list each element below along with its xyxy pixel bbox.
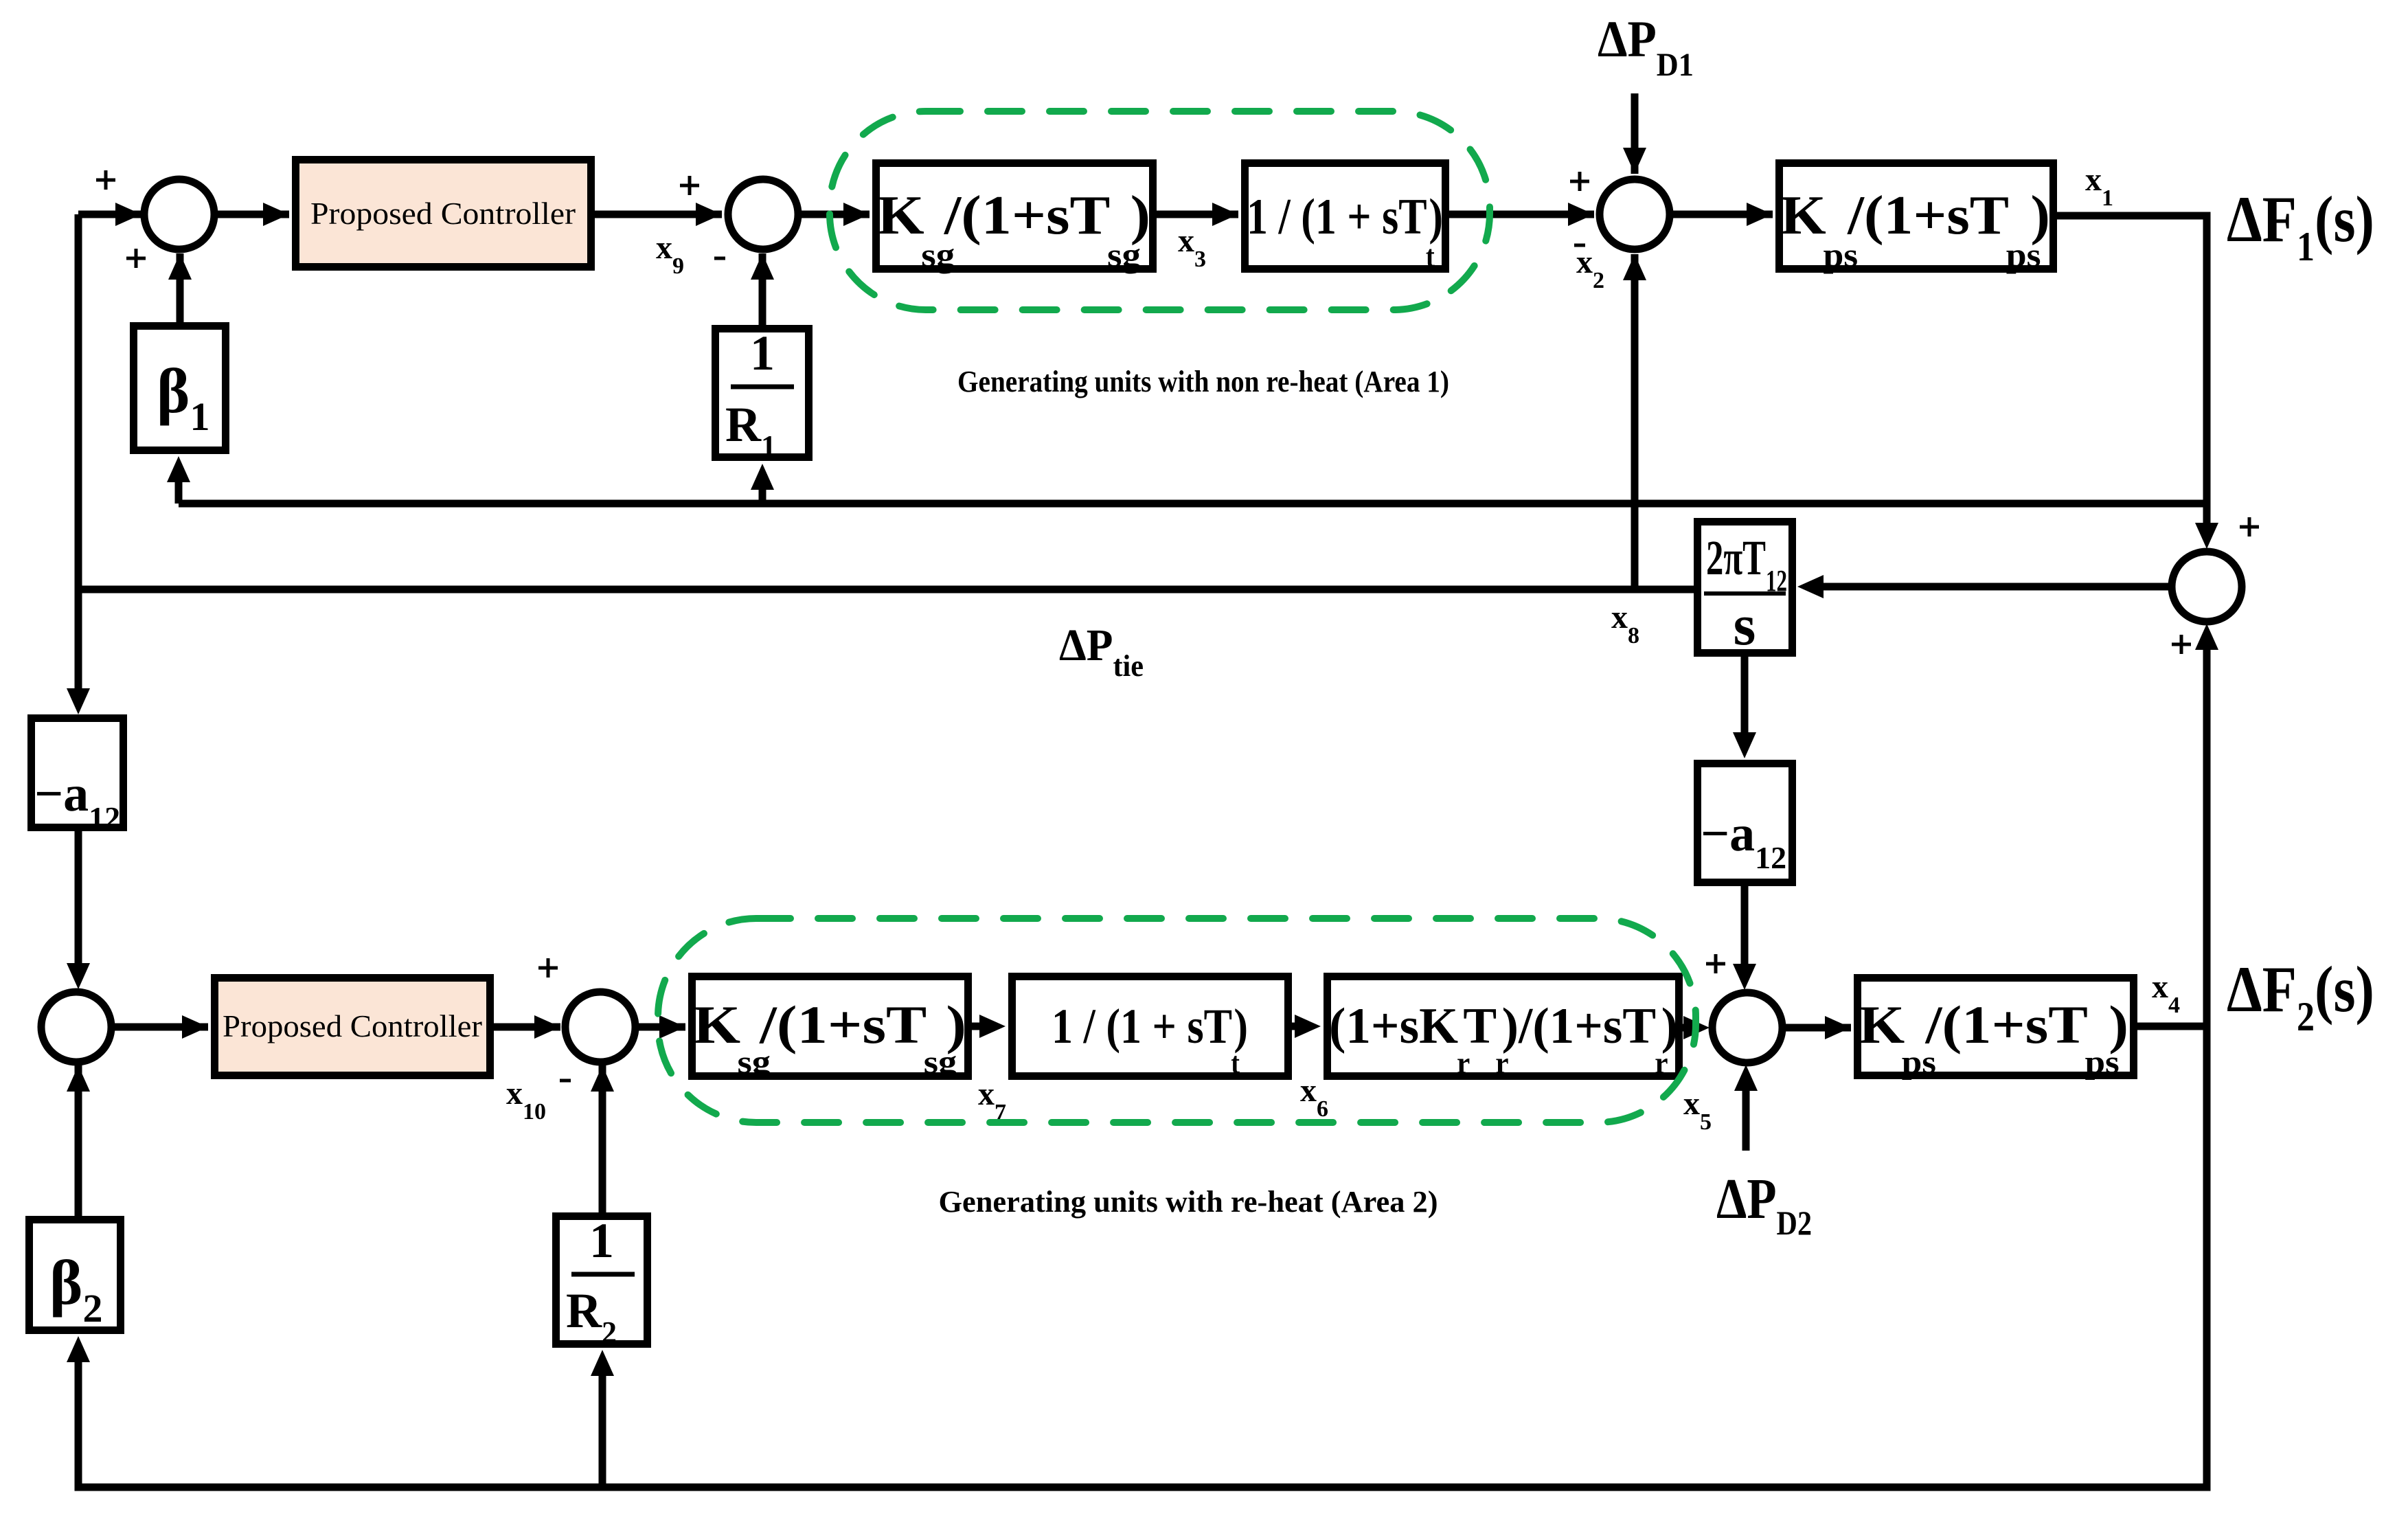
svg-text:Generating units with re-heat: Generating units with re-heat (Area 2) [939, 1185, 1438, 1219]
wire controller 2 to S6 [494, 1015, 560, 1039]
sign - (droop input to S2) [714, 257, 725, 260]
sign - (tie-line input to S3) [1574, 244, 1585, 247]
block beta2 [30, 1220, 121, 1331]
node x9 label [656, 229, 684, 279]
caption area 1 [957, 365, 1449, 398]
wire dF2 up into S4 [2195, 624, 2218, 1026]
node x7 label [978, 1076, 1006, 1125]
caption area 2 [939, 1185, 1438, 1219]
summing junction S2 [728, 179, 798, 249]
sign + (S3 left input) [1570, 172, 1589, 191]
wire turbine 1 to S3 [1449, 203, 1594, 226]
block droop 1/R2 [556, 1213, 648, 1349]
wire beta2 to S5 [67, 1065, 90, 1216]
block turbine 1 1/(1+sTt) [1245, 163, 1446, 274]
wire S7 to power system 2 [1782, 1016, 1851, 1039]
sign - (droop input to S6) [560, 1079, 571, 1083]
sign + (ACE1 left input) [96, 170, 115, 190]
wire turbine 2 to reheater [1292, 1015, 1321, 1038]
block -a12 (left) [32, 719, 124, 836]
node x5 label [1683, 1085, 1712, 1135]
summing junction S5 (ACE2) [41, 992, 111, 1062]
block governor 2 Ksg/(1+sTsg) [692, 977, 968, 1081]
node x2 label [1576, 244, 1604, 293]
wire S2 to governor 1 [798, 203, 870, 226]
block tie-line 2piT12/s [1698, 522, 1793, 658]
block droop 1/R1 [716, 326, 809, 463]
node x3 label [1178, 223, 1206, 272]
wire beta1 to S1 [168, 253, 192, 322]
controller block Proposed Controller (Area 2) [215, 978, 490, 1076]
wire tie-line power up into S3 [1623, 254, 1646, 589]
block power system 1 Kps/(1+sTps) [1780, 163, 2054, 275]
wire 2piT12/s down to -a12 right [1733, 657, 1756, 758]
svg-text:1: 1 [589, 1213, 614, 1268]
sign + (reheat/-a12 input to S7) [1706, 954, 1725, 973]
summing junction S4 (tie-line) [2172, 552, 2242, 622]
sign + (beta1 input to S1) [126, 249, 146, 268]
wire S3 to power system 1 [1670, 203, 1773, 226]
node x6 label [1300, 1072, 1328, 1122]
wire Kps2 to dF2 node [2137, 1023, 2207, 1030]
wire S4 to 2piT12/s block [1797, 575, 2172, 598]
svg-text:Generating units with non re-h: Generating units with non re-heat (Area … [957, 365, 1449, 398]
svg-text:1: 1 [750, 326, 775, 381]
block reheater (1+sKrTr)/(1+sTr) [1328, 977, 1679, 1081]
node x1 label [2085, 161, 2113, 211]
wire left vertical dPtie branch [67, 214, 90, 714]
wire S5 to controller 2 [111, 1015, 208, 1039]
summing junction S3 (power system 1 input) [1600, 179, 1670, 249]
sign + (S2 left input) [680, 176, 699, 195]
output label dF2(s) [2227, 953, 2374, 1039]
wire left -a12 down to S5 [67, 831, 90, 989]
wire dF2 feedback bottom loop [67, 1026, 2207, 1487]
wire S1 to controller 1 [214, 203, 289, 226]
block beta1 [134, 326, 226, 451]
block -a12 (right) [1698, 764, 1793, 883]
tie-line label dPtie [1059, 620, 1144, 683]
wire tie-line power horizontal dPtie [78, 586, 1694, 594]
svg-text:Proposed Controller: Proposed Controller [223, 1009, 482, 1043]
wire feedback up into beta1 [167, 456, 190, 504]
wire controller 1 to S2 [595, 203, 722, 226]
summing junction S1 (ACE1) [144, 179, 214, 249]
wire dP_D1 into S3 [1623, 93, 1646, 174]
wire dP_D2 up into S7 [1734, 1065, 1758, 1151]
green dashed boundary area 2 [658, 918, 1696, 1122]
wire S6 to governor 2 [635, 1015, 685, 1039]
summing junction S7 (power system 2 input) [1712, 993, 1782, 1063]
block governor 1 Ksg/(1+sTsg) [876, 163, 1153, 275]
wire dF1 from Kps1 down to tie summer [2057, 216, 2218, 549]
wire dF1 feedback line [179, 500, 2207, 508]
sign + (S6 left input) [538, 958, 558, 978]
sign + (dF1 into S4) [2240, 517, 2259, 536]
svg-text:Proposed Controller: Proposed Controller [310, 196, 576, 231]
svg-text:s: s [1734, 594, 1756, 657]
node ACE1 input wire [78, 203, 141, 226]
summing junction S6 [565, 992, 635, 1062]
node x4 label [2152, 969, 2180, 1018]
wire feedback up into 1/R1 [751, 464, 774, 504]
controller block Proposed Controller (Area 1) [296, 160, 591, 267]
wire reheater to S7 [1683, 1016, 1710, 1039]
block turbine 2 1/(1+sTt) [1012, 977, 1288, 1081]
output label dF1(s) [2227, 183, 2374, 269]
wire bottom loop up into 1/R2 [591, 1350, 614, 1487]
green dashed boundary area 1 [830, 111, 1490, 310]
node x10 label [506, 1075, 546, 1125]
load disturbance label dP_D1 [1598, 11, 1694, 83]
load disturbance label dP_D2 [1716, 1167, 1812, 1242]
wire governor 2 to turbine 2 [972, 1015, 1006, 1038]
wire 1/R2 to S6 [591, 1065, 614, 1212]
sign + (dF2 into S4) [2172, 635, 2191, 654]
node x8 label [1611, 599, 1639, 648]
wire governor 1 to turbine 1 [1157, 203, 1238, 226]
wire 1/R1 to S2 [751, 253, 774, 325]
wire -a12 right down to S7 [1733, 886, 1756, 990]
block power system 2 Kps/(1+sTps) [1858, 978, 2134, 1081]
